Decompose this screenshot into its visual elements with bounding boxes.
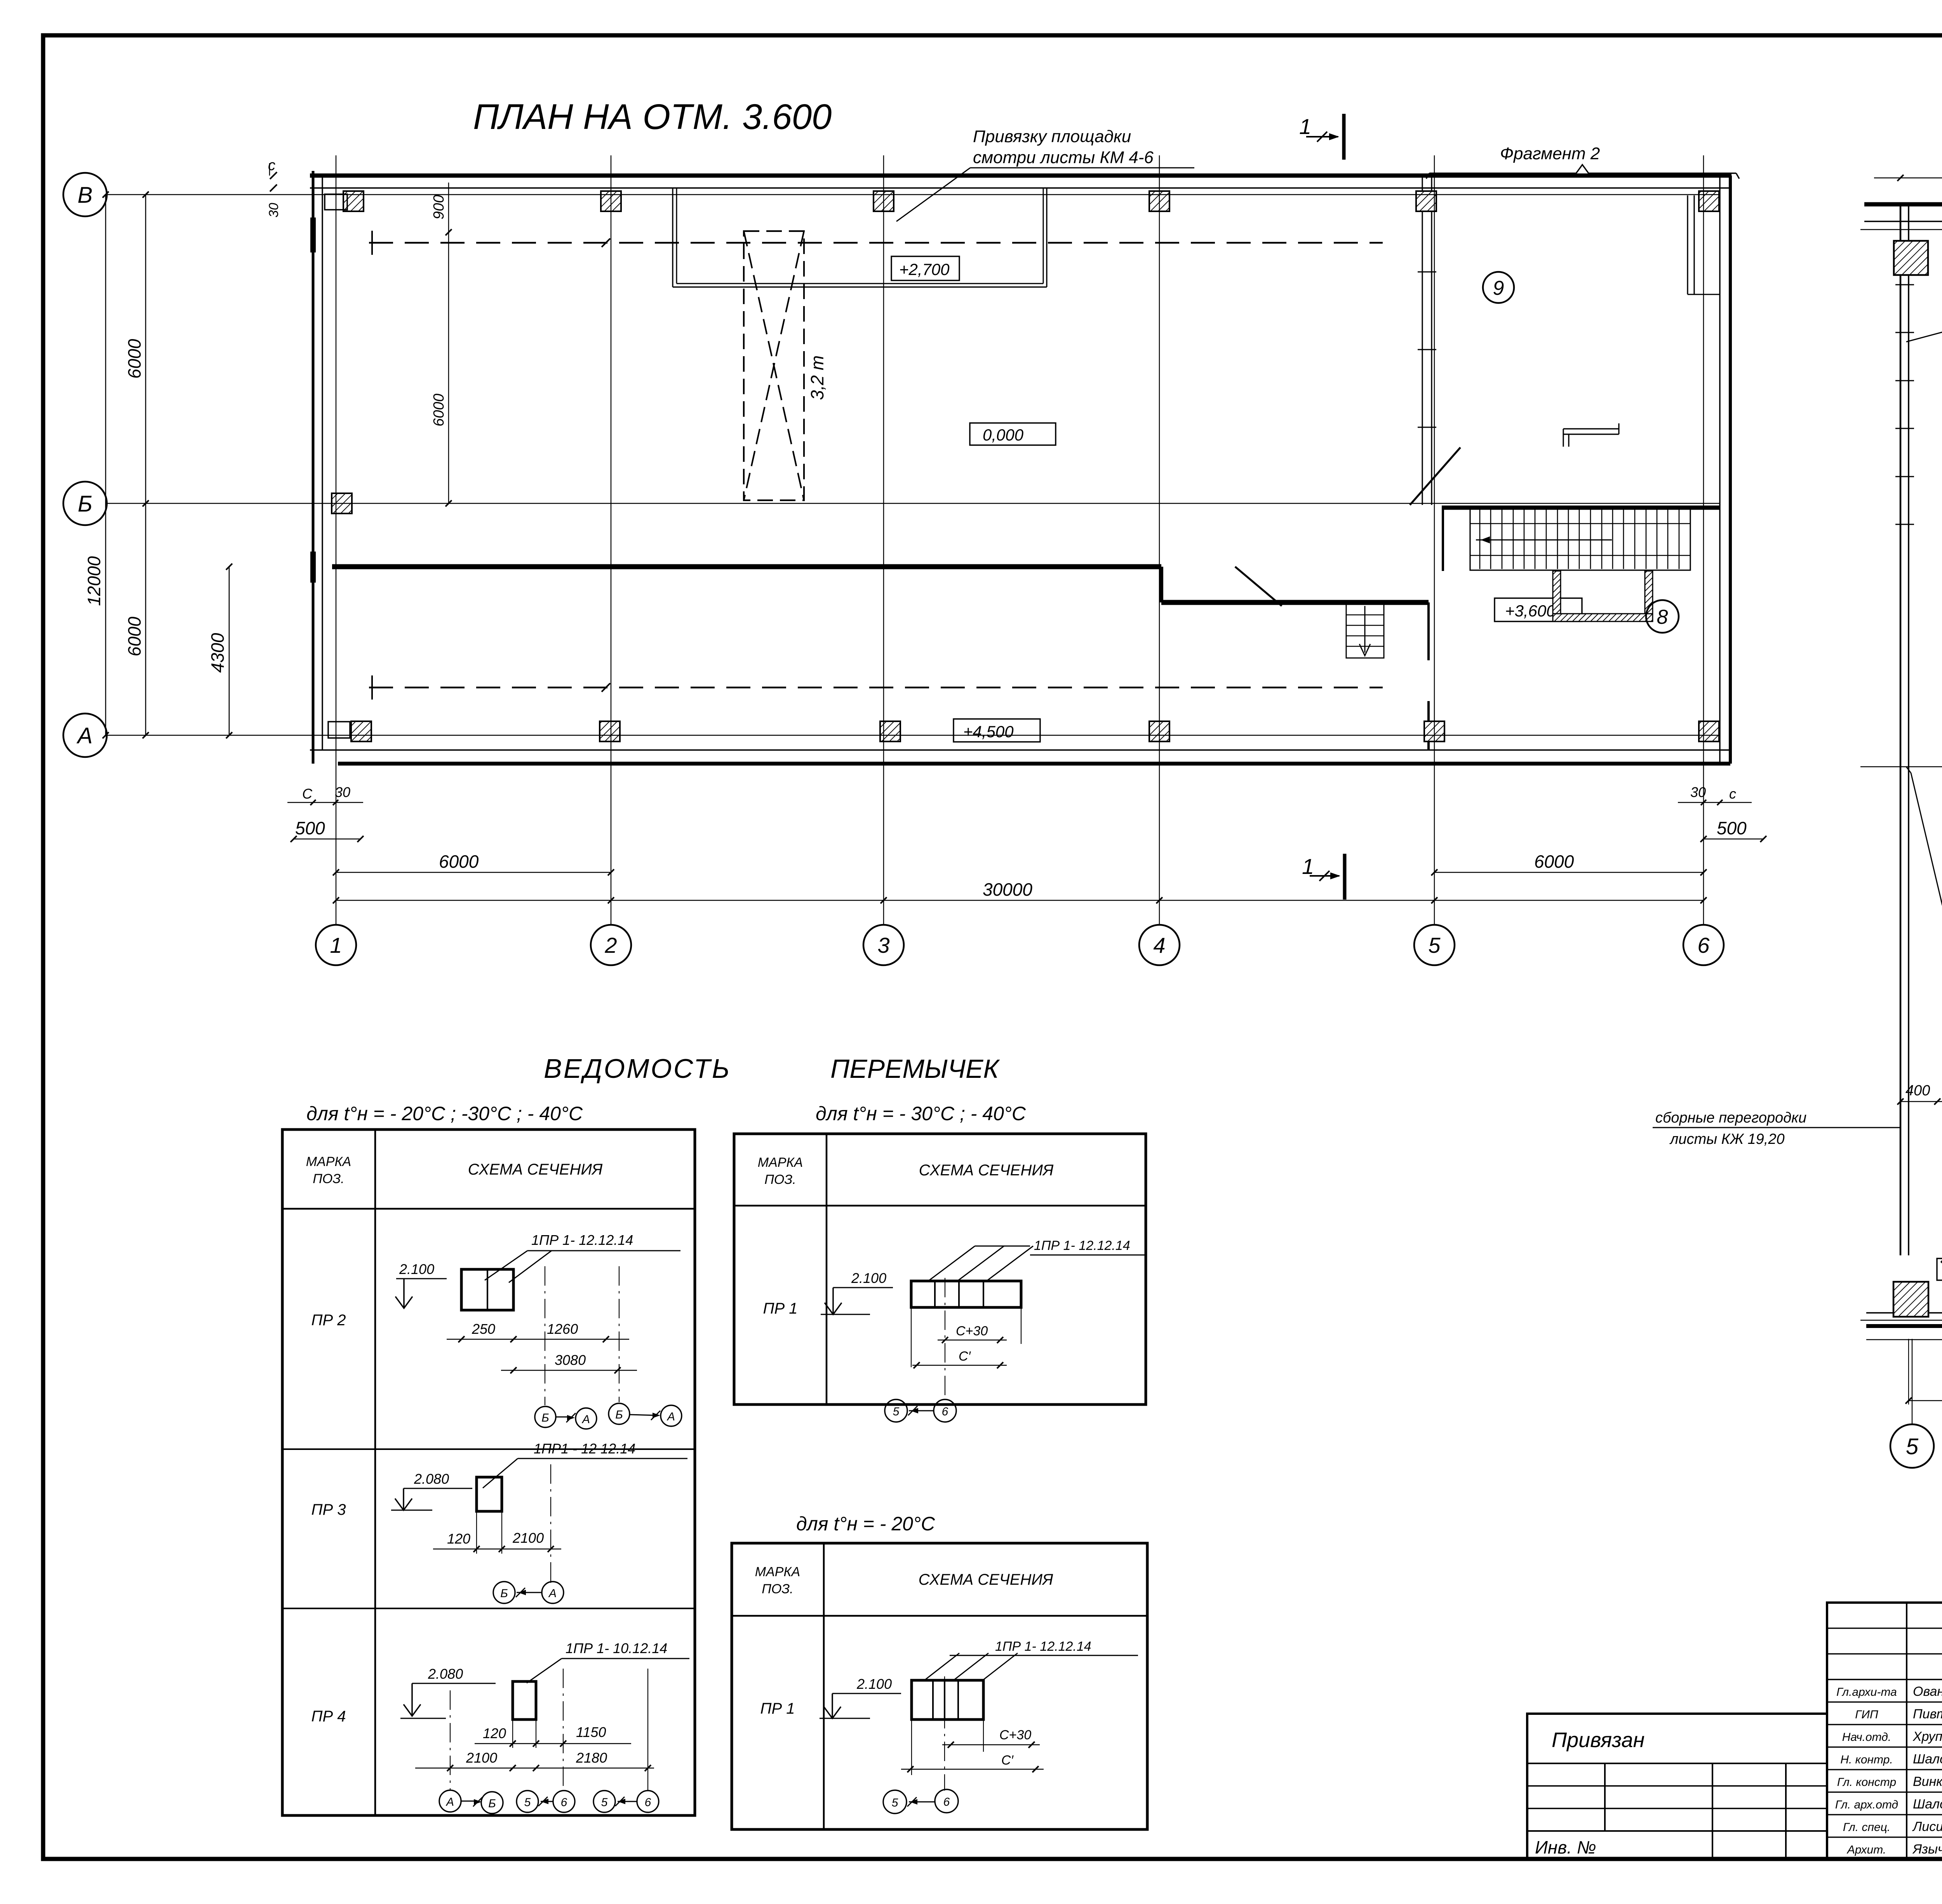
svg-text:8: 8 (1657, 606, 1668, 628)
svg-text:4: 4 (1153, 933, 1165, 957)
svg-text:Б: Б (500, 1587, 508, 1600)
plan internal wall A (332, 564, 1161, 569)
svg-text:1ПР 1- 12.12.14: 1ПР 1- 12.12.14 (1034, 1238, 1130, 1253)
svg-text:Гл. констр: Гл. констр (1837, 1776, 1896, 1789)
table3 level 2.100 (820, 1676, 901, 1718)
table2 frame (734, 1134, 1146, 1405)
svg-text:1ПР 1- 10.12.14: 1ПР 1- 10.12.14 (566, 1640, 667, 1656)
svg-text:C′: C′ (959, 1349, 971, 1364)
svg-text:6000: 6000 (439, 851, 479, 872)
svg-text:для t°н = - 20°С ; -30°С ; -: для t°н = - 20°С ; -30°С ; - 40°С (306, 1103, 583, 1124)
pr3 lintel icon (477, 1477, 502, 1511)
frag bottom wall (1866, 1313, 1942, 1340)
svg-text:ПЛАН НА ОТМ. 3.600: ПЛАН НА ОТМ. 3.600 (473, 97, 832, 137)
axis line B (106, 503, 1720, 504)
table2 axis refs (885, 1399, 956, 1422)
plan column top 5 (1416, 191, 1436, 211)
svg-text:3: 3 (877, 933, 889, 957)
svg-text:Гл. арх.отд: Гл. арх.отд (1835, 1798, 1898, 1811)
frag column A-left (1893, 1282, 1928, 1317)
frag axis circle 5 (1890, 1424, 1934, 1468)
fragment label small (1500, 144, 1600, 163)
plan column top 1 (343, 191, 364, 211)
axis line 2 vertical (611, 155, 611, 925)
vedomost cond 3 (796, 1513, 935, 1535)
pr4 axis dashdot (450, 1669, 648, 1791)
svg-text:1ПР1 - 12 12.14: 1ПР1 - 12 12.14 (534, 1441, 635, 1457)
plan column bottom 6 (1699, 721, 1719, 741)
table3 axis refs (883, 1789, 958, 1813)
svg-text:5: 5 (1428, 933, 1441, 957)
table3 frame (732, 1543, 1147, 1829)
axis line A (106, 735, 1720, 736)
pr4 dims upper (475, 1724, 631, 1747)
axis circle 4 (1139, 925, 1180, 965)
svg-text:СХЕМА СЕЧЕНИЯ: СХЕМА СЕЧЕНИЯ (468, 1161, 603, 1178)
fragment bracket (1426, 165, 1739, 179)
pr3 axis dashdot (477, 1464, 551, 1583)
dim c 30 bottom right (1678, 784, 1752, 805)
axis line V (106, 194, 1720, 195)
svg-text:30: 30 (335, 784, 350, 800)
svg-text:Винклер: Винклер (1913, 1774, 1942, 1789)
svg-text:ПОЗ.: ПОЗ. (762, 1582, 793, 1596)
svg-text:Б: Б (615, 1408, 623, 1421)
frag dim 1200 (1905, 1339, 1942, 1405)
privyazan labels (1535, 1728, 1644, 1857)
svg-text:ПР 1: ПР 1 (763, 1300, 797, 1317)
svg-text:+4,500: +4,500 (963, 722, 1014, 741)
vedomost cond 1 (306, 1103, 583, 1124)
frag top dim line (1874, 175, 1942, 181)
axis circle 5 (1414, 925, 1455, 965)
frag door leaf 2 (1941, 1230, 1942, 1263)
frag axis V (1860, 229, 1942, 230)
svg-text:5: 5 (1906, 1434, 1919, 1459)
svg-text:C: C (302, 786, 313, 802)
svg-text:ПР 2: ПР 2 (311, 1312, 346, 1329)
svg-text:Привязку площадки: Привязку площадки (973, 127, 1131, 146)
plan column B-axis (332, 493, 352, 513)
table2 level 2.100 (821, 1270, 893, 1314)
table3 lintel icon (912, 1680, 983, 1720)
svg-text:+2,700: +2,700 (899, 260, 950, 278)
axis line 4 vertical (1159, 155, 1160, 925)
pr2 mark label (485, 1232, 680, 1283)
pr4 mark label (527, 1640, 689, 1683)
section mark 1 top (1299, 114, 1344, 160)
svg-text:1ПР 1- 12.12.14: 1ПР 1- 12.12.14 (531, 1232, 633, 1248)
svg-text:2.100: 2.100 (851, 1270, 886, 1286)
plan left wall (313, 171, 322, 764)
svg-text:В: В (78, 183, 93, 208)
plan crane rail upper (369, 231, 1383, 255)
personnel table rows (1835, 1681, 1942, 1857)
axis circle 2 (591, 925, 631, 965)
dim 500 left (291, 818, 364, 842)
axis circle B (63, 482, 107, 525)
plan internal wall step (1159, 567, 1163, 602)
svg-text:А: А (581, 1413, 590, 1426)
pr4 level 2.080 (400, 1666, 496, 1718)
svg-text:ПР 4: ПР 4 (311, 1708, 346, 1725)
plan right wall (1720, 176, 1730, 764)
pr2 dim 3080 (501, 1352, 637, 1373)
plan room9 partition (1688, 195, 1720, 294)
room circle 8 (1646, 600, 1679, 633)
dim 900-6000 inner (431, 183, 452, 506)
svg-text:1: 1 (1299, 114, 1311, 139)
pr3 dims (433, 1530, 561, 1552)
svg-text:МАРКА: МАРКА (306, 1154, 351, 1169)
vedomost title (544, 1053, 1000, 1084)
plan platform outline (673, 188, 1047, 287)
frag note partitions (1653, 1110, 1900, 1147)
note privyazka (896, 127, 1194, 221)
frag column V-left (1894, 241, 1928, 275)
svg-text:1260: 1260 (547, 1321, 578, 1337)
svg-text:6000: 6000 (124, 616, 144, 656)
pr2 dim 250-1260 (447, 1321, 629, 1342)
svg-text:1: 1 (1302, 854, 1314, 879)
svg-text:C+30: C+30 (999, 1728, 1031, 1742)
vedomost cond 2 (816, 1103, 1026, 1124)
dim 6000 5-6 (1431, 851, 1707, 875)
plan internal wall B (1161, 600, 1429, 605)
svg-text:2.080: 2.080 (428, 1666, 463, 1682)
table2 lintel icon (911, 1281, 1021, 1307)
svg-text:Пивторак: Пивторак (1913, 1707, 1942, 1721)
section mark 1 bottom (1302, 854, 1345, 900)
axis circle 6 (1683, 925, 1724, 965)
svg-text:Архит.: Архит. (1846, 1843, 1886, 1856)
level 0.000 (970, 423, 1056, 445)
svg-text:+3,600: +3,600 (1505, 602, 1556, 620)
svg-text:1: 1 (330, 933, 342, 957)
plan door leaf 2 (1235, 567, 1282, 606)
svg-text:смотри листы КМ 4-6: смотри листы КМ 4-6 (973, 148, 1154, 167)
svg-text:500: 500 (295, 818, 325, 838)
svg-text:C′: C′ (1001, 1753, 1014, 1768)
frag axis B (1860, 766, 1942, 768)
frag left wall (1895, 204, 1914, 1255)
table3 dims (901, 1728, 1044, 1772)
svg-text:2180: 2180 (576, 1750, 607, 1766)
frag dim 400 800 (1897, 1080, 1942, 1105)
svg-text:СХЕМА СЕЧЕНИЯ: СХЕМА СЕЧЕНИЯ (919, 1162, 1054, 1179)
table2 axis dashdot (911, 1278, 1021, 1398)
svg-text:2.100: 2.100 (399, 1261, 434, 1277)
frag axis A (1860, 1320, 1942, 1321)
plan crane hoist symbol (744, 231, 804, 500)
level +2,700 (891, 256, 959, 280)
svg-text:Хрупало: Хрупало (1912, 1729, 1942, 1744)
svg-text:Шаломеев: Шаломеев (1913, 1797, 1942, 1812)
svg-text:5: 5 (893, 1405, 900, 1418)
svg-text:4300: 4300 (207, 633, 228, 673)
svg-text:Ованесян: Ованесян (1913, 1684, 1942, 1699)
svg-text:c: c (1729, 786, 1736, 802)
svg-text:Язычьян: Язычьян (1912, 1842, 1942, 1857)
pr2 axis refs (535, 1403, 682, 1429)
pr2 axis dashdot (545, 1266, 619, 1405)
svg-text:МАРКА: МАРКА (755, 1565, 800, 1579)
plan column top 2 (601, 191, 621, 211)
plan room8 partition (1563, 423, 1619, 447)
plan small stair (1346, 604, 1384, 658)
svg-text:6000: 6000 (1534, 851, 1574, 872)
svg-text:2: 2 (604, 933, 617, 957)
svg-text:400: 400 (1905, 1083, 1930, 1099)
svg-text:ГИП: ГИП (1855, 1708, 1878, 1721)
svg-text:А: А (445, 1796, 454, 1808)
plan column bottom 5 (1424, 721, 1444, 741)
pr4 lintel icon (513, 1681, 536, 1720)
svg-text:Гл.архи-та: Гл.архи-та (1836, 1686, 1897, 1699)
svg-text:для t°н = - 20°C: для t°н = - 20°C (796, 1513, 935, 1535)
svg-text:ПОЗ.: ПОЗ. (313, 1171, 344, 1186)
plan column extra bottom-left (328, 722, 350, 738)
svg-text:1ПР 1- 12.12.14: 1ПР 1- 12.12.14 (995, 1639, 1091, 1654)
svg-text:30: 30 (1690, 784, 1706, 800)
dim 30000 total (333, 879, 1707, 903)
plan bottom wall (310, 750, 1730, 764)
plan stairwell left wall (1442, 508, 1444, 571)
plan top wall (310, 176, 1731, 188)
svg-text:для t°н = - 30°С ; - 40°С: для t°н = - 30°С ; - 40°С (816, 1103, 1026, 1124)
personnel table grid (1827, 1603, 1942, 1859)
svg-text:2100: 2100 (512, 1530, 544, 1546)
table3 axis dashdot (912, 1676, 983, 1791)
frag note otv700 (1906, 286, 1942, 342)
svg-text:А: А (666, 1410, 675, 1423)
svg-text:Шаломеев: Шаломеев (1913, 1752, 1942, 1767)
svg-text:ПР 1: ПР 1 (760, 1700, 795, 1717)
svg-text:ПОЗ.: ПОЗ. (764, 1172, 796, 1187)
svg-text:А: А (77, 723, 93, 748)
axis line 5 vertical (1434, 155, 1435, 925)
plan crane capacity label (807, 355, 827, 400)
plan column bottom 1 (351, 721, 371, 741)
svg-text:0,000: 0,000 (983, 426, 1024, 444)
svg-text:Б: Б (78, 491, 92, 517)
plan column bottom 3 (880, 721, 900, 741)
svg-text:Фрагмент 2: Фрагмент 2 (1500, 144, 1600, 163)
svg-text:ВЕДОМОСТЬ: ВЕДОМОСТЬ (544, 1053, 731, 1084)
dim c top (266, 157, 281, 218)
pr4 axis refs (439, 1790, 659, 1813)
svg-text:C+30: C+30 (956, 1324, 988, 1338)
svg-text:2.100: 2.100 (856, 1676, 892, 1692)
svg-text:6: 6 (942, 1405, 948, 1418)
plan column bottom 2 (600, 721, 620, 741)
svg-text:ПЕРЕМЫЧЕК: ПЕРЕМЫЧЕК (830, 1054, 1000, 1084)
svg-text:30: 30 (266, 203, 281, 218)
table3 mark label (924, 1639, 1138, 1680)
frag level +4,500 (1937, 1258, 1942, 1280)
svg-text:9: 9 (1493, 277, 1504, 299)
axis line 6 vertical (1703, 155, 1704, 925)
svg-text:3080: 3080 (555, 1352, 586, 1368)
frag top wall (1864, 204, 1942, 221)
pr3 mark label (483, 1441, 687, 1488)
plan crane rail lower (369, 675, 1383, 700)
svg-text:900: 900 (431, 195, 447, 219)
svg-text:СХЕМА СЕЧЕНИЯ: СХЕМА СЕЧЕНИЯ (919, 1571, 1053, 1588)
level +4,500 (954, 719, 1040, 742)
title plan (473, 97, 832, 137)
axis circle V (63, 173, 107, 216)
axis line 1 vertical (336, 155, 336, 925)
svg-text:Б: Б (488, 1797, 496, 1810)
table2 mark label (928, 1238, 1145, 1281)
axis circle A (63, 714, 107, 757)
plan partition wall 9-8 (1418, 176, 1436, 505)
dim 6000 1-2 (333, 851, 614, 875)
axis line 3 vertical (883, 155, 884, 925)
pr4 dims lower (415, 1750, 654, 1771)
table1 row labels (311, 1312, 346, 1725)
pr2 level 2.100 (395, 1261, 447, 1308)
svg-text:сборные перегородки: сборные перегородки (1655, 1110, 1806, 1126)
svg-text:Б: Б (541, 1411, 549, 1424)
svg-text:Нач.отд.: Нач.отд. (1842, 1731, 1891, 1744)
pr3 axis refs (493, 1582, 564, 1603)
svg-text:120: 120 (447, 1531, 470, 1547)
svg-text:МАРКА: МАРКА (758, 1155, 803, 1170)
svg-text:Лисичкин: Лисичкин (1912, 1819, 1942, 1834)
room circle 9 (1483, 272, 1514, 303)
frag axis 5 line (1912, 1339, 1912, 1424)
svg-text:3,2 т: 3,2 т (807, 355, 827, 400)
privyazan box (1527, 1714, 1827, 1859)
dim 500 right (1700, 818, 1766, 842)
pr2 lintel icon (461, 1269, 513, 1310)
table2 row label (763, 1300, 797, 1317)
svg-text:А: А (548, 1587, 557, 1600)
svg-text:1150: 1150 (576, 1724, 606, 1740)
svg-text:5: 5 (524, 1796, 531, 1809)
svg-text:Гл. спец.: Гл. спец. (1843, 1821, 1890, 1834)
svg-text:500: 500 (1717, 818, 1747, 838)
axis circle 3 (863, 925, 904, 965)
svg-text:Инв. №: Инв. № (1535, 1837, 1596, 1857)
dim c 30 bottom left (287, 784, 363, 805)
svg-text:120: 120 (483, 1725, 506, 1741)
dim chain 6000-6000 left (124, 191, 149, 738)
svg-text:6000: 6000 (124, 339, 144, 379)
table3 row label (760, 1700, 795, 1717)
plan door leaf (1410, 447, 1460, 505)
svg-text:6: 6 (1697, 933, 1710, 957)
plan column bottom 4 (1149, 721, 1169, 741)
table1 frame (282, 1130, 695, 1815)
plan stairwell top wall (1442, 506, 1720, 510)
svg-text:Привязан: Привязан (1552, 1728, 1644, 1752)
pr3 level 2.080 (391, 1471, 472, 1510)
level +3,600 (1495, 598, 1582, 621)
plan stair treads (1470, 508, 1690, 570)
plan column top 4 (1149, 191, 1169, 211)
axis circle 1 (316, 925, 356, 965)
svg-text:250: 250 (472, 1321, 495, 1337)
frag note otv300 (1906, 767, 1942, 924)
svg-text:6: 6 (943, 1796, 950, 1808)
svg-text:6000: 6000 (431, 393, 447, 426)
svg-text:2100: 2100 (466, 1750, 497, 1766)
svg-text:30000: 30000 (983, 879, 1032, 900)
dim 4300 (207, 564, 232, 738)
svg-text:6: 6 (645, 1796, 651, 1809)
svg-text:Н. контр.: Н. контр. (1840, 1753, 1893, 1766)
plan stair landing walls (1553, 571, 1653, 621)
svg-text:ПР 3: ПР 3 (311, 1501, 346, 1518)
plan partition axis5 wall upper (1427, 602, 1430, 750)
table2 dims (912, 1324, 1007, 1368)
dim chain 12000 (84, 191, 109, 738)
svg-text:12000: 12000 (84, 556, 104, 606)
plan column top 3 (874, 191, 894, 211)
svg-text:5: 5 (892, 1796, 898, 1809)
svg-text:5: 5 (601, 1796, 608, 1809)
plan column top 6 (1699, 191, 1719, 211)
svg-text:листы КЖ 19,20: листы КЖ 19,20 (1669, 1131, 1785, 1147)
plan column extra top-left (325, 194, 347, 210)
svg-text:6: 6 (561, 1796, 567, 1809)
svg-text:2.080: 2.080 (414, 1471, 449, 1487)
